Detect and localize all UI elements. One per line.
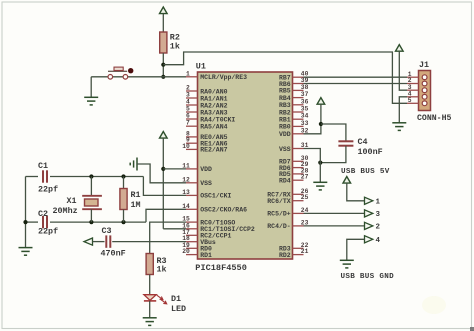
wire +5V to VDD pin32 [304,104,321,134]
pin 37 stub [293,97,304,99]
capacitor C1 [43,170,47,182]
pin 5 stub [186,111,198,113]
pin 11 stub [186,168,198,170]
junction node MCLR row [161,75,165,79]
pin 19 stub [186,247,198,249]
wire left rail [25,177,27,248]
svg-text:33: 33 [301,120,309,127]
svg-text:RB3: RB3 [279,102,291,109]
crystal X1 [82,196,102,209]
pin 27 stub [293,179,304,181]
pin 30 stub [293,160,304,162]
pin 33 stub [293,125,304,127]
svg-text:RD4: RD4 [279,178,291,185]
svg-text:RA5/AN4: RA5/AN4 [200,124,227,131]
svg-text:1M: 1M [131,200,141,210]
wire to crystal top [90,177,92,196]
ground below J1 [392,123,406,131]
pin 24 stub [293,212,304,214]
svg-text:38: 38 [301,84,309,91]
pin 35 stub [293,111,304,113]
terminal input arrow (left) [84,238,93,245]
svg-text:USB BUS 5V: USB BUS 5V [341,168,390,176]
junction rail/C2 [23,220,27,224]
pin 12 stub [186,182,198,184]
ground (rotated) at VSS pin12 [130,158,137,171]
wire button to ground [90,77,92,98]
pin 18 stub [186,241,198,243]
svg-text:20Mhz: 20Mhz [53,206,78,216]
wire arrow to R2 [162,14,164,32]
ground USB BUS GND [340,260,354,268]
pin 13 stub [186,194,198,196]
svg-text:22pf: 22pf [38,185,58,195]
wire to pin16 [163,228,186,230]
pin 31 stub [293,148,304,150]
pin 29 stub [293,167,304,169]
pin 20 stub [186,254,198,256]
svg-text:1k: 1k [170,42,180,52]
svg-text:RB5: RB5 [279,88,291,95]
pin 32 stub [293,133,304,135]
svg-text:4: 4 [186,99,190,106]
svg-text:36: 36 [301,98,309,105]
pin 28 stub [293,173,304,175]
terminal 2 arrow [365,222,373,229]
wire pin15 RC0 to R3 [150,222,186,253]
svg-text:3: 3 [186,92,190,99]
power +5V arrow at VDD [317,98,325,105]
wire rail to C1 [26,176,39,178]
J1 pin 4 stub [407,96,419,98]
svg-text:VDD: VDD [279,131,291,138]
connector J1 pin hole 3 [422,88,427,93]
power +5V arrow at VDD pin11 [160,132,168,139]
wire terminal to C3 [93,241,105,243]
pin 15 stub [186,221,198,223]
wire J1 pin4 to ground [399,97,407,123]
svg-text:C3: C3 [102,226,112,236]
power arrow USB BUS 5V [343,177,351,184]
connector J1 pin hole 2 [422,81,427,86]
svg-text:470nF: 470nF [101,249,126,259]
pin 10 stub [186,148,198,150]
svg-text:RB2: RB2 [279,109,291,116]
wire bend to OSC1 pin13 [143,177,186,196]
svg-text:35: 35 [301,106,309,113]
wire C3 to VBus pin18 [112,241,186,243]
wire VSS pin12 to ground [137,164,186,183]
resistor R3 [146,254,153,275]
wire R1 bottom [123,210,125,223]
wire ground riser to MCLR pin [91,76,186,78]
svg-text:VSS: VSS [200,180,212,187]
wire MCLR route to J1 pin5 [163,52,407,103]
svg-text:PIC18F4550: PIC18F4550 [195,263,247,273]
svg-text:X1: X1 [67,196,77,206]
svg-text:RA3/AN3: RA3/AN3 [200,109,227,116]
wire RC4/D- to terminal 2 [304,225,365,227]
svg-text:LED: LED [171,304,186,314]
J1 pin 2 stub [407,83,419,85]
push button SW [108,67,133,79]
svg-text:RC6/TX: RC6/TX [267,198,291,205]
wire RB7 to J1 pin1 [304,76,408,78]
wire C4 bottom to VSS node [320,146,346,163]
wire terminal 4 to USB ground [347,239,365,260]
junction R1 bottom [121,220,125,224]
wire +5V to J1 pin3 [399,51,407,90]
pin 9 stub [186,142,198,144]
ground below LED [143,318,157,326]
resistor R1 [120,189,127,210]
svg-text:34: 34 [301,113,309,120]
svg-text:2: 2 [376,224,381,232]
pin 2 stub [186,90,198,92]
svg-text:RD2: RD2 [279,252,291,259]
svg-text:27: 27 [301,174,309,181]
dark corner artifact [422,296,446,314]
svg-text:USB BUS GND: USB BUS GND [341,273,395,281]
svg-text:22pf: 22pf [38,227,58,237]
pin 36 stub [293,104,304,106]
junction node MCLR branch [161,63,165,67]
svg-text:RB0: RB0 [279,124,291,131]
resistor R2 [160,32,167,53]
pin 16 stub [186,228,198,230]
svg-text:MCLR/Vpp/RE3: MCLR/Vpp/RE3 [200,74,247,81]
svg-text:4: 4 [376,237,381,245]
wire R3 to LED [149,275,151,295]
svg-text:3: 3 [376,211,381,219]
svg-text:37: 37 [301,91,309,98]
capacitor C4 [338,141,353,145]
ground below VSS [313,182,327,190]
junction crystal top [89,174,93,178]
svg-text:6: 6 [186,113,190,120]
junction VSS/C4 [318,161,322,165]
J1 pin 3 stub [407,89,419,91]
pin 26 stub [293,193,304,195]
svg-text:5: 5 [186,106,190,113]
wire C1 to OSC1 bend [50,176,143,178]
svg-text:RA2/AN2: RA2/AN2 [200,102,227,109]
pin 34 stub [293,118,304,120]
svg-text:20: 20 [182,248,190,255]
J1 pin 5 stub [407,102,419,104]
wire USB5V to terminal 1 [347,183,365,201]
junction crystal bottom [89,220,93,224]
svg-text:RA0/AN0: RA0/AN0 [200,88,227,95]
svg-text:OSC1/CKI: OSC1/CKI [200,193,231,200]
svg-text:RC5/D+: RC5/D+ [267,211,291,218]
connector J1 CONN-H5 body [419,71,431,111]
svg-text:C1: C1 [38,161,48,171]
wire +5V vertical line [162,138,164,229]
pin 3 stub [186,97,198,99]
svg-text:RA1/AN1: RA1/AN1 [200,95,227,102]
svg-text:D1: D1 [171,294,181,304]
terminal 1 arrow [365,197,373,204]
pin 23 stub [293,225,304,227]
connector J1 pin hole 1 [422,75,427,80]
power +5V arrow at J1 [396,45,404,52]
pin 25 stub [293,200,304,202]
LED D1 [144,295,167,304]
svg-text:5: 5 [408,97,412,104]
pin 4 stub [186,104,198,106]
wire rail to C2 [26,221,39,223]
wire to R1 top [123,177,125,189]
svg-text:10: 10 [182,143,190,150]
svg-text:1: 1 [186,70,190,77]
pin 6 stub [186,118,198,120]
pin 38 stub [293,89,304,91]
capacitor C3 [106,235,110,247]
svg-text:1: 1 [376,199,381,207]
wire C2 to OSC2 bend [50,221,146,223]
wire to VDD pin11 [163,168,186,170]
terminal 4 arrow [365,236,373,243]
pin 17 stub [186,234,198,236]
svg-text:OSC2/CKO/RA6: OSC2/CKO/RA6 [200,207,247,214]
svg-text:U1: U1 [196,61,206,71]
pin 40 stub [293,76,304,78]
pin 22 stub [293,247,304,249]
svg-text:VDD: VDD [200,166,212,173]
svg-text:RD1: RD1 [200,252,212,259]
pin 8 stub [186,136,198,138]
pin 21 stub [293,254,304,256]
svg-text:C2: C2 [38,209,48,219]
svg-text:25: 25 [301,194,309,201]
junction VDD/C4 [319,122,323,126]
J1 pin 1 stub [407,76,419,78]
pin 7 stub [186,125,198,127]
svg-text:VSS: VSS [279,146,291,153]
wire crystal bottom [90,209,92,222]
wire to C4 top [321,124,346,141]
svg-text:RC4/D-: RC4/D- [267,223,290,230]
pin 39 stub [293,83,304,85]
connector J1 pin hole 5 [422,101,427,106]
wire bend to OSC2 pin14 [146,209,186,222]
svg-text:RB4: RB4 [279,95,291,102]
svg-text:J1: J1 [419,60,429,70]
terminal 3 arrow [365,210,373,217]
svg-text:2: 2 [186,85,190,92]
wire RC5/D+ to terminal 3 [304,212,365,214]
power +5V arrow above R2 [160,7,168,14]
svg-text:100nF: 100nF [358,147,383,157]
svg-text:RE2/AN7: RE2/AN7 [200,147,227,154]
svg-text:R1: R1 [131,190,141,200]
wire VSS pin31 to ground [304,149,321,183]
wire LED to ground [149,301,151,318]
wire R2 to MCLR node [162,53,164,77]
svg-text:CONN-H5: CONN-H5 [417,114,451,123]
connector J1 pin hole 4 [422,94,427,99]
junction R1 top [121,174,125,178]
junction VDD pin11 [161,167,165,171]
ground below button [84,97,98,105]
svg-text:RB1: RB1 [279,117,291,124]
wire RB6 to J1 pin2 [304,83,408,85]
svg-text:C4: C4 [358,137,368,147]
pin 1 stub [186,76,198,78]
IC U1 PIC18F4550 chip body [198,72,293,259]
svg-text:1k: 1k [157,265,167,275]
svg-text:RA4/T0CKI: RA4/T0CKI [200,116,235,123]
svg-text:21: 21 [301,248,309,255]
ground left rail [19,248,33,256]
capacitor C2 [43,216,47,228]
svg-text:7: 7 [186,120,190,127]
pin 14 stub [186,208,198,210]
